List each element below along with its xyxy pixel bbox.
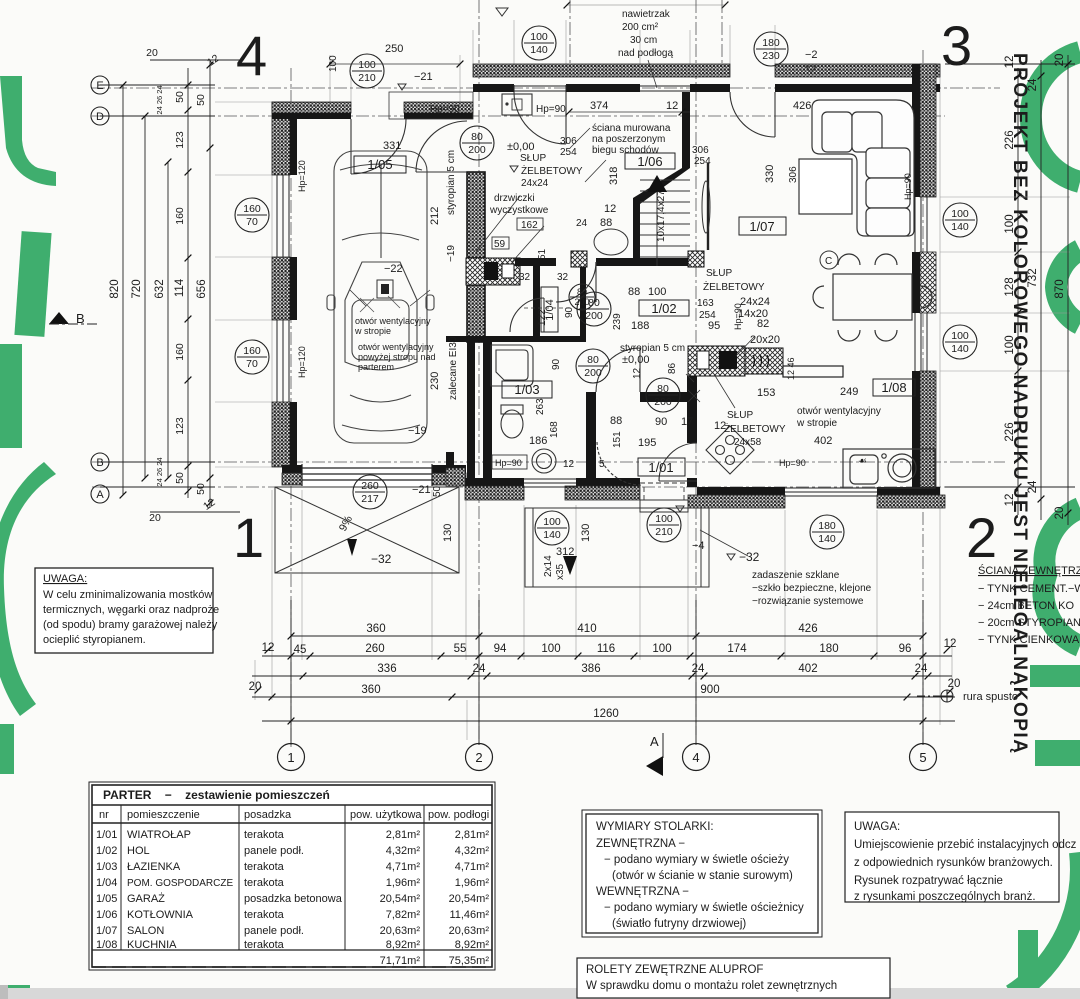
svg-text:20: 20	[149, 512, 161, 524]
svg-text:24x24: 24x24	[521, 178, 549, 189]
svg-text:249: 249	[840, 386, 858, 398]
svg-text:160: 160	[174, 207, 186, 225]
svg-text:122: 122	[537, 309, 548, 326]
svg-text:styropian 5 cm: styropian 5 cm	[620, 343, 685, 354]
svg-text:−19: −19	[408, 425, 427, 437]
svg-text:100: 100	[951, 208, 969, 220]
svg-text:160: 160	[174, 343, 186, 361]
svg-text:195: 195	[638, 437, 656, 449]
svg-text:160: 160	[243, 203, 261, 215]
svg-text:x35: x35	[555, 563, 566, 580]
svg-text:20,63m²: 20,63m²	[449, 925, 490, 937]
svg-text:12: 12	[944, 638, 957, 650]
svg-text:186: 186	[529, 435, 547, 447]
svg-text:2,81m²: 2,81m²	[386, 829, 421, 841]
svg-text:180: 180	[818, 520, 836, 532]
svg-text:100: 100	[1004, 335, 1016, 354]
svg-text:Hp=90: Hp=90	[536, 104, 566, 115]
svg-text:Hp=90: Hp=90	[903, 173, 913, 200]
svg-text:ZEWNĘTRZNA −: ZEWNĘTRZNA −	[596, 838, 685, 850]
svg-text:otwór wentylacyjny: otwór wentylacyjny	[797, 406, 881, 417]
svg-text:426: 426	[793, 100, 811, 112]
svg-text:−22: −22	[384, 263, 403, 275]
svg-text:80: 80	[588, 297, 600, 309]
svg-text:posadzka betonowa: posadzka betonowa	[244, 893, 343, 905]
coffee table	[799, 159, 852, 214]
svg-text:ŁAZIENKA: ŁAZIENKA	[127, 861, 181, 873]
porch jamb outline	[389, 92, 473, 119]
svg-text:306: 306	[788, 166, 799, 183]
svg-text:9%: 9%	[337, 514, 355, 534]
svg-text:(od spodu) bramy garażowej nal: (od spodu) bramy garażowej należy	[43, 619, 218, 631]
garage bottom wall with gate	[282, 465, 466, 473]
svg-text:230: 230	[429, 372, 441, 390]
stairs	[640, 176, 690, 266]
svg-text:wyczystkowe: wyczystkowe	[489, 205, 549, 216]
svg-text:80: 80	[657, 383, 669, 395]
svg-text:4,32m²: 4,32m²	[455, 845, 490, 857]
kitchen counter top run	[783, 366, 843, 377]
UWAGA note box right	[845, 812, 1077, 903]
svg-text:250: 250	[385, 43, 403, 55]
axis circles bottom	[278, 744, 937, 771]
svg-text:24: 24	[576, 218, 588, 229]
svg-text:7,82m²: 7,82m²	[386, 909, 421, 921]
svg-text:20,63m²: 20,63m²	[380, 925, 421, 937]
svg-text:200: 200	[654, 396, 672, 408]
svg-text:80: 80	[471, 131, 483, 143]
svg-text:200: 200	[585, 310, 603, 322]
svg-text:100: 100	[655, 513, 673, 525]
bath window	[524, 479, 576, 487]
svg-text:88: 88	[610, 415, 622, 427]
svg-text:Hp=90: Hp=90	[495, 458, 522, 468]
right dimension chains	[945, 55, 1075, 525]
svg-text:210: 210	[358, 72, 376, 84]
svg-text:±0,00: ±0,00	[507, 141, 534, 153]
svg-text:na poszerzonym: na poszerzonym	[592, 134, 665, 145]
svg-text:terakota: terakota	[244, 939, 285, 951]
svg-text:styropian 5 cm: styropian 5 cm	[446, 150, 457, 215]
svg-text:4: 4	[236, 24, 267, 87]
svg-text:Hp=120: Hp=120	[297, 160, 307, 192]
svg-text:1/03: 1/03	[96, 861, 117, 873]
svg-text:50: 50	[174, 472, 186, 484]
bath fixtures	[491, 345, 556, 473]
svg-text:50: 50	[432, 485, 443, 497]
svg-text:drzwiczki: drzwiczki	[494, 193, 535, 204]
exterior walls: garage left wall stipple+black	[272, 102, 297, 467]
svg-text:254: 254	[694, 156, 711, 167]
svg-text:12: 12	[262, 642, 275, 654]
svg-text:SŁUP: SŁUP	[520, 153, 546, 164]
svg-text:24 26 24: 24 26 24	[155, 85, 164, 114]
svg-text:4,71m²: 4,71m²	[455, 861, 490, 873]
SCIANA ZEWNETRZNA legend right	[963, 564, 1080, 703]
svg-text:174: 174	[727, 643, 747, 655]
svg-text:24 26 24: 24 26 24	[155, 457, 164, 486]
svg-text:306: 306	[692, 145, 709, 156]
kitchen counter + sinks	[843, 449, 935, 488]
svg-text:20: 20	[146, 47, 158, 59]
svg-text:45: 45	[294, 644, 307, 656]
svg-text:900: 900	[700, 684, 719, 696]
svg-text:−4: −4	[692, 540, 705, 552]
svg-text:12: 12	[666, 100, 678, 112]
svg-text:zalecane EI30: zalecane EI30	[448, 336, 459, 400]
svg-text:402: 402	[798, 663, 817, 675]
svg-text:95: 95	[708, 320, 720, 332]
svg-text:32: 32	[519, 272, 531, 283]
svg-text:1/04: 1/04	[96, 877, 117, 889]
svg-text:1260: 1260	[593, 708, 619, 720]
svg-text:12: 12	[604, 203, 616, 215]
svg-text:Hp=90: Hp=90	[733, 303, 743, 330]
svg-text:226: 226	[1004, 422, 1016, 441]
svg-text:powyżej stropu nad: powyżej stropu nad	[358, 352, 436, 362]
svg-text:UWAGA:: UWAGA:	[854, 821, 900, 833]
svg-text:96: 96	[899, 643, 912, 655]
sliding door leaf hall/salon	[707, 163, 709, 250]
svg-text:90: 90	[655, 416, 667, 428]
svg-text:200: 200	[574, 297, 589, 307]
svg-text:SŁUP: SŁUP	[706, 268, 732, 279]
svg-text:168: 168	[549, 421, 560, 438]
svg-text:59: 59	[494, 239, 506, 250]
axis grid dash-dot lines	[92, 0, 1005, 748]
svg-text:z odpowiednich rysunków branżo: z odpowiednich rysunków branżowych.	[854, 857, 1053, 869]
svg-text:82: 82	[757, 318, 769, 330]
svg-text:☙: ☙	[858, 456, 867, 467]
svg-text:386: 386	[581, 663, 600, 675]
svg-text:A: A	[650, 734, 659, 749]
svg-text:SŁUP: SŁUP	[727, 410, 753, 421]
svg-text:30 cm: 30 cm	[630, 35, 657, 46]
svg-text:80: 80	[587, 354, 599, 366]
svg-text:100: 100	[951, 330, 969, 342]
top windows thin lines	[514, 85, 690, 92]
svg-text:100: 100	[543, 516, 561, 528]
svg-text:870: 870	[1054, 279, 1066, 298]
svg-text:80: 80	[577, 287, 587, 297]
kitchen chimney band	[688, 346, 745, 376]
svg-text:20,54m²: 20,54m²	[380, 893, 421, 905]
svg-text:terakota: terakota	[244, 829, 285, 841]
svg-text:W celu zminimalizowania mostkó: W celu zminimalizowania mostków	[43, 589, 212, 601]
garage left windows 160/70	[277, 175, 289, 402]
svg-text:312: 312	[556, 546, 574, 558]
bath top wall	[446, 336, 586, 342]
UWAGA note box left	[35, 568, 219, 653]
svg-text:pomieszczenie: pomieszczenie	[127, 809, 200, 821]
main top wall	[473, 64, 730, 77]
svg-text:306: 306	[560, 136, 577, 147]
svg-text:5: 5	[919, 750, 926, 765]
svg-text:WIATROŁAP: WIATROŁAP	[127, 829, 191, 841]
svg-text:12: 12	[632, 367, 643, 379]
svg-text:KOTŁOWNIA: KOTŁOWNIA	[127, 909, 194, 921]
svg-text:100: 100	[648, 286, 666, 298]
svg-text:20: 20	[948, 678, 961, 690]
circled window/door size labels	[235, 26, 977, 549]
svg-text:180: 180	[762, 37, 780, 49]
svg-text:12 46: 12 46	[786, 357, 796, 380]
svg-text:260: 260	[365, 643, 384, 655]
svg-text:51: 51	[537, 248, 548, 260]
svg-text:114: 114	[174, 278, 186, 297]
PARTER room schedule table	[89, 782, 495, 970]
svg-text:151: 151	[612, 431, 623, 448]
svg-text:1/05: 1/05	[367, 157, 392, 172]
ROLETY box bottom	[577, 958, 890, 998]
fireplace block	[745, 348, 783, 374]
svg-text:1: 1	[233, 506, 264, 569]
car in garage	[327, 151, 434, 443]
svg-text:Umiejscowienie przebić instala: Umiejscowienie przebić instalacyjnych od…	[854, 839, 1077, 851]
svg-text:pow. podłogi: pow. podłogi	[428, 809, 489, 821]
svg-text:55: 55	[454, 643, 467, 655]
svg-text:88: 88	[628, 286, 640, 298]
big axis numerals	[233, 14, 997, 569]
svg-text:239: 239	[612, 313, 623, 330]
dining table + chairs	[813, 254, 932, 341]
section marker A bottom	[662, 733, 664, 758]
pom.gosp walls	[533, 266, 540, 336]
svg-text:ROLETY ZEWĘTRZNE ALUPROF: ROLETY ZEWĘTRZNE ALUPROF	[586, 964, 763, 976]
green watermark right glyphs	[1012, 52, 1080, 995]
svg-text:90: 90	[551, 358, 562, 370]
driveway	[275, 487, 459, 573]
svg-text:terakota: terakota	[244, 877, 285, 889]
svg-text:162: 162	[521, 220, 538, 231]
svg-text:A: A	[96, 489, 104, 501]
svg-text:w stropie: w stropie	[354, 326, 391, 336]
right exterior wall	[920, 64, 936, 197]
svg-text:12: 12	[563, 459, 575, 470]
svg-text:Hp=90: Hp=90	[430, 104, 460, 115]
bottom dimension chains	[252, 600, 955, 745]
small annotations	[297, 9, 913, 607]
svg-text:226: 226	[1004, 130, 1016, 149]
svg-text:70: 70	[246, 358, 258, 370]
svg-text:otwór wentylacyjny: otwór wentylacyjny	[358, 342, 434, 352]
svg-text:24: 24	[915, 663, 928, 675]
svg-text:4,71m²: 4,71m²	[386, 861, 421, 873]
room number boxes	[354, 153, 915, 476]
svg-text:4: 4	[692, 750, 699, 765]
svg-text:1/06: 1/06	[96, 909, 117, 921]
green watermark left glyphs	[0, 76, 56, 999]
svg-text:230: 230	[762, 50, 780, 62]
svg-text:153: 153	[757, 387, 775, 399]
bath / entry bottom wall	[465, 478, 524, 486]
svg-text:UWAGA:: UWAGA:	[43, 573, 87, 585]
svg-text:−21: −21	[414, 71, 433, 83]
svg-text:1,96m²: 1,96m²	[455, 877, 490, 889]
svg-text:163: 163	[697, 298, 714, 309]
svg-text:140: 140	[951, 343, 969, 355]
section marker B left	[49, 312, 69, 324]
svg-text:94: 94	[494, 643, 507, 655]
svg-text:2x14: 2x14	[543, 555, 554, 577]
svg-text:5: 5	[599, 459, 605, 470]
svg-text:212: 212	[429, 207, 441, 225]
svg-text:− 20cm STYROPIAN: − 20cm STYROPIAN	[978, 617, 1080, 629]
salon corner sofa	[812, 100, 914, 236]
kotlownia right wall + stair flight walls	[682, 92, 690, 168]
svg-text:GARAŻ: GARAŻ	[127, 892, 165, 905]
svg-text:360: 360	[361, 684, 380, 696]
svg-text:Rysunek rozpatrywać łącznie: Rysunek rozpatrywać łącznie	[854, 875, 1003, 887]
svg-text:20,54m²: 20,54m²	[449, 893, 490, 905]
svg-text:263: 263	[535, 398, 546, 415]
svg-text:123: 123	[174, 417, 186, 435]
svg-text:656: 656	[196, 279, 208, 298]
svg-text:11,46m²: 11,46m²	[449, 909, 489, 921]
svg-text:1/08: 1/08	[96, 939, 117, 951]
svg-text:374: 374	[590, 100, 608, 112]
svg-text:20: 20	[1054, 54, 1066, 67]
svg-text:75,35m²: 75,35m²	[449, 955, 490, 967]
svg-text:4,32m²: 4,32m²	[386, 845, 421, 857]
svg-text:2: 2	[475, 750, 482, 765]
svg-text:20x20: 20x20	[750, 334, 780, 346]
kotlownia bottom wall	[515, 258, 556, 266]
svg-text:termicznych, węgarki oraz nadp: termicznych, węgarki oraz nadproże	[43, 604, 219, 616]
svg-text:panele podł.: panele podł.	[244, 845, 304, 857]
svg-text:ŚCIANA ZEWNĘTRZNA: ŚCIANA ZEWNĘTRZNA	[978, 564, 1080, 577]
svg-text:330: 330	[764, 165, 776, 183]
svg-text:ocieplić styropianem.: ocieplić styropianem.	[43, 634, 146, 646]
svg-text:20: 20	[249, 681, 262, 693]
svg-text:200: 200	[468, 144, 486, 156]
svg-text:402: 402	[814, 435, 832, 447]
svg-text:140: 140	[818, 533, 836, 545]
interior wall garage/hall	[467, 172, 485, 258]
left dimension chains	[100, 60, 240, 512]
svg-text:2: 2	[966, 506, 997, 569]
svg-text:160: 160	[243, 345, 261, 357]
svg-text:12: 12	[1004, 494, 1016, 507]
svg-text:86: 86	[667, 362, 678, 374]
svg-text:nr: nr	[99, 809, 109, 821]
svg-text:1/06: 1/06	[637, 154, 662, 169]
svg-text:24: 24	[1027, 78, 1039, 91]
svg-text:50: 50	[195, 483, 207, 495]
garage top wall	[272, 102, 351, 113]
svg-text:88: 88	[600, 217, 612, 229]
svg-text:PARTER − zestawienie pom: PARTER − zestawienie pomieszczeń	[103, 788, 330, 802]
svg-text:Hp=90: Hp=90	[779, 458, 806, 468]
svg-text:100: 100	[541, 643, 560, 655]
svg-text:20: 20	[1054, 507, 1066, 520]
WYMIARY STOLARKI box	[582, 810, 822, 937]
svg-text:820: 820	[109, 279, 121, 298]
svg-text:B: B	[96, 457, 103, 469]
svg-text:otwór wentylacyjny: otwór wentylacyjny	[355, 316, 431, 326]
svg-text:140: 140	[951, 221, 969, 233]
svg-text:24: 24	[473, 663, 486, 675]
svg-text:nad podłogą: nad podłogą	[618, 48, 673, 59]
svg-text:130: 130	[442, 524, 454, 542]
svg-text:SALON: SALON	[127, 925, 164, 937]
svg-text:50: 50	[174, 91, 186, 103]
svg-text:W sprawdku domu o montażu role: W sprawdku domu o montażu rolet zewnętrz…	[586, 980, 837, 992]
svg-text:HOL: HOL	[127, 845, 150, 857]
svg-text:−19: −19	[446, 245, 457, 262]
wiatrolap walls	[586, 392, 596, 480]
svg-text:10x17,4x27: 10x17,4x27	[656, 190, 667, 242]
svg-text:8,92m²: 8,92m²	[386, 939, 421, 951]
svg-text:E: E	[96, 80, 103, 92]
svg-text:POM. GOSPODARCZE: POM. GOSPODARCZE	[127, 878, 233, 889]
svg-text:12: 12	[205, 52, 222, 69]
svg-text:12: 12	[1004, 56, 1016, 69]
svg-text:zadaszenie szklane: zadaszenie szklane	[752, 570, 840, 581]
svg-text:1,96m²: 1,96m²	[386, 877, 421, 889]
garage floor drain	[377, 280, 393, 298]
svg-text:254: 254	[560, 147, 577, 158]
svg-text:1/01: 1/01	[96, 829, 117, 841]
svg-text:426: 426	[798, 623, 817, 635]
svg-text:12: 12	[201, 496, 218, 513]
svg-text:PROJEKT BEZ KOLOROWEGO NADRUKU: PROJEKT BEZ KOLOROWEGO NADRUKU JEST NIEL…	[1009, 53, 1030, 754]
svg-text:1: 1	[287, 750, 294, 765]
kotlownia sink + boiler	[502, 94, 532, 115]
entry door step + dashes	[640, 500, 688, 512]
svg-text:1/02: 1/02	[96, 845, 117, 857]
svg-text:1/07: 1/07	[96, 925, 117, 937]
svg-text:71,71m²: 71,71m²	[380, 955, 421, 967]
svg-text:2,81m²: 2,81m²	[455, 829, 490, 841]
svg-text:336: 336	[377, 663, 396, 675]
svg-text:1/02: 1/02	[651, 301, 676, 316]
right windows 100/140	[915, 197, 927, 371]
svg-text:210: 210	[655, 526, 673, 538]
svg-text:200 cm²: 200 cm²	[622, 22, 659, 33]
svg-text:732: 732	[1027, 268, 1039, 287]
svg-text:217: 217	[361, 493, 379, 505]
svg-text:1/05: 1/05	[96, 893, 117, 905]
svg-text:−32: −32	[371, 552, 392, 566]
leaders / misc marks	[330, 60, 755, 556]
svg-text:C: C	[825, 256, 832, 267]
svg-text:8,92m²: 8,92m²	[455, 939, 490, 951]
svg-text:360: 360	[366, 623, 385, 635]
svg-text:24: 24	[692, 663, 705, 675]
svg-text:123: 123	[174, 131, 186, 149]
svg-text:WEWNĘTRZNA −: WEWNĘTRZNA −	[596, 886, 689, 898]
svg-text:− TYNK CEMENT.−W: − TYNK CEMENT.−W	[978, 583, 1080, 595]
svg-text:17: 17	[681, 416, 693, 428]
svg-text:biegu schodów: biegu schodów	[592, 145, 659, 156]
svg-text:24x24: 24x24	[740, 296, 770, 308]
svg-text:1/01: 1/01	[648, 460, 673, 475]
svg-text:632: 632	[154, 279, 166, 298]
svg-text:− TYNK CIENKOWAR: − TYNK CIENKOWAR	[978, 634, 1080, 646]
extension lines (thin)	[215, 5, 1070, 740]
svg-text:ŻELBETOWY: ŻELBETOWY	[521, 164, 583, 177]
svg-text:panele podł.: panele podł.	[244, 925, 304, 937]
svg-text:parterem: parterem	[358, 362, 394, 372]
bath left wall	[467, 342, 475, 478]
svg-text:331: 331	[383, 140, 401, 152]
svg-text:1/07: 1/07	[749, 219, 774, 234]
svg-text:140: 140	[543, 529, 561, 541]
svg-text:100: 100	[1004, 214, 1016, 233]
svg-text:180: 180	[819, 643, 838, 655]
svg-text:−21: −21	[412, 484, 431, 496]
